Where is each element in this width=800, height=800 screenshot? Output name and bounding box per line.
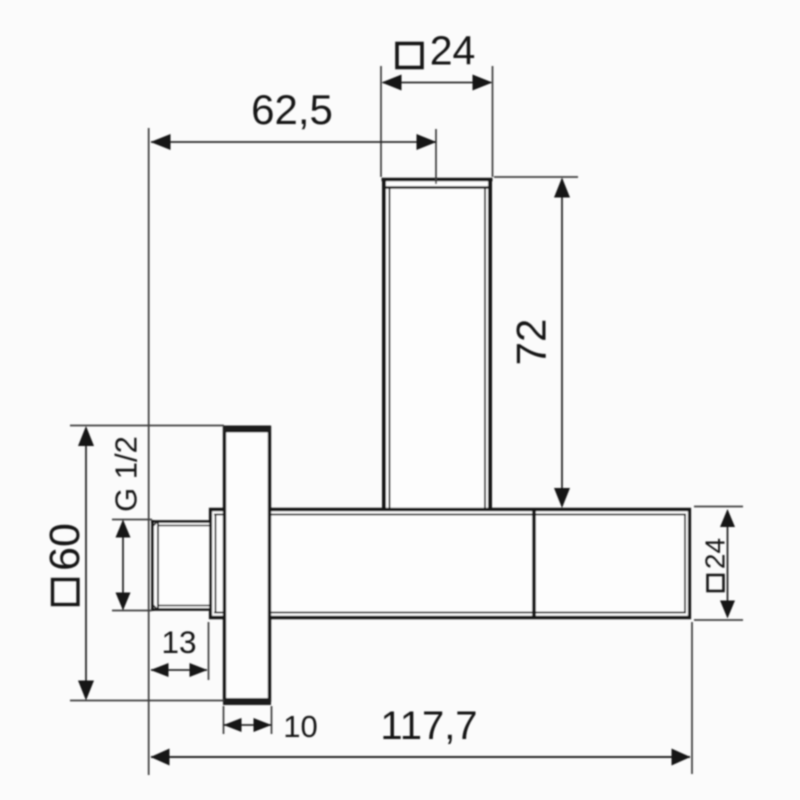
ext line pipe left bbox=[380, 66, 382, 177]
dimension sq24 top bbox=[382, 28, 493, 91]
horizontal valve body bbox=[209, 508, 691, 619]
ext line 10 right bbox=[271, 706, 273, 734]
dimension 72 bbox=[508, 178, 571, 509]
vertical outlet pipe body bbox=[382, 178, 493, 508]
pipe centre tick bbox=[435, 129, 437, 184]
ext line sq24 right top bbox=[694, 506, 743, 508]
wall flange plate bbox=[223, 426, 271, 706]
extension lines bbox=[70, 66, 743, 775]
ext line 72 top bbox=[494, 176, 578, 178]
ext line 10 left bbox=[223, 706, 225, 734]
dimension 13 bbox=[151, 624, 208, 677]
ext line nipple bottom bbox=[112, 610, 152, 612]
ext line flange top bbox=[70, 425, 224, 427]
svg-text:10: 10 bbox=[283, 709, 317, 744]
svg-text:24: 24 bbox=[700, 538, 731, 569]
svg-text:72: 72 bbox=[508, 319, 555, 366]
dimension sq60 left bbox=[41, 426, 94, 701]
svg-text:G 1/2: G 1/2 bbox=[109, 436, 144, 512]
svg-text:62,5: 62,5 bbox=[251, 86, 333, 133]
ext line pipe right bbox=[492, 66, 494, 177]
dimension 62,5 bbox=[151, 86, 437, 150]
svg-text:60: 60 bbox=[41, 523, 89, 571]
ext line nipple top bbox=[112, 519, 152, 521]
svg-text:24: 24 bbox=[430, 28, 476, 74]
body division line bbox=[532, 509, 536, 618]
ext line 13 right bbox=[208, 622, 210, 680]
svg-text:117,7: 117,7 bbox=[380, 704, 477, 748]
svg-text:13: 13 bbox=[161, 624, 196, 660]
nipple thread chamfers bbox=[152, 521, 158, 527]
ext line body right bbox=[691, 622, 693, 774]
dimension 10 bbox=[224, 709, 318, 744]
ext line sq24 right bottom bbox=[694, 619, 743, 621]
ext line flange bottom bbox=[70, 700, 224, 702]
dimension G 1/2 bbox=[109, 436, 144, 610]
long ext line wall plane bbox=[148, 128, 150, 775]
dimension 117,7 bbox=[151, 704, 691, 766]
threaded nipple G 1/2 bbox=[151, 520, 209, 611]
dimension sq24 right bbox=[700, 509, 736, 619]
